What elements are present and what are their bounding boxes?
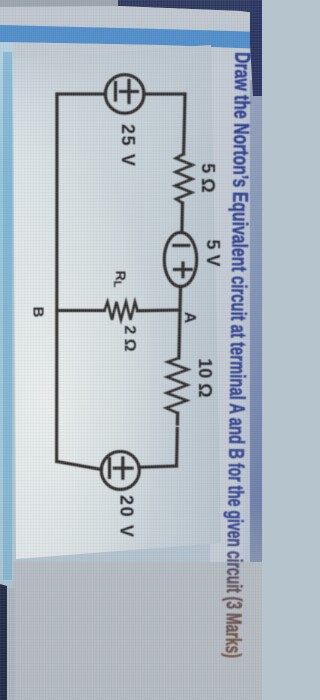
wire top rail seg2 (180, 203, 184, 233)
band below blue strip (0, 42, 262, 62)
top blue band (0, 25, 262, 49)
minus sign of 25V (114, 83, 117, 101)
wire left branch lower (57, 92, 106, 95)
wire top rail left segment (184, 94, 185, 154)
top gray band (0, 6, 262, 32)
voltage source V2 5V ellipse (164, 233, 196, 287)
voltage source V1 25V circle (105, 75, 144, 114)
wire right branch upper (139, 466, 177, 467)
wire right branch lower (57, 462, 102, 470)
right blue-ish gradient over title column (228, 40, 262, 660)
wire top rail seg5 (177, 413, 178, 466)
wire middle branch upper from node A (138, 308, 181, 312)
title column light background (210, 36, 262, 670)
wire left branch upper (144, 92, 185, 95)
top right navy corner (250, 0, 262, 96)
plus sign of 25V (121, 81, 138, 103)
voltage source V3 20V circle (101, 452, 139, 490)
white content box (13, 45, 221, 559)
bottom left navy strip (0, 584, 7, 700)
resistor RL 2ohm (105, 302, 138, 320)
resistor 5ohm (175, 154, 192, 203)
wire top rail seg3 to node A (178, 287, 182, 311)
left cyan strip (0, 43, 13, 588)
plus sign of 20V (114, 458, 132, 478)
wire top rail seg4 (179, 310, 180, 358)
rotated group: unrotated content coords (700 wide x 262 tall) (30, 52, 255, 658)
wire middle branch lower to node B (57, 309, 105, 312)
top navy strip (0, 0, 262, 8)
plus sign of 5V (175, 263, 192, 277)
wire bottom rail (55, 94, 59, 462)
minus sign of 5V (174, 244, 189, 247)
minus sign of 20V (108, 459, 111, 478)
resistor 10ohm (166, 358, 188, 413)
